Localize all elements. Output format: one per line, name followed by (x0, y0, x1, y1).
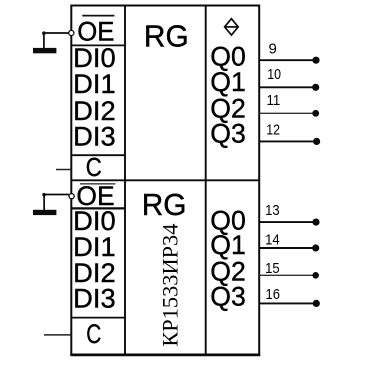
junction dot OE wire corner section 2 (42, 193, 46, 197)
svg-text:DI3: DI3 (73, 283, 116, 313)
pin 15 wire (259, 274, 312, 276)
svg-text:10: 10 (267, 66, 281, 83)
svg-text:Q3: Q3 (210, 119, 246, 149)
pin 14 wire (259, 247, 312, 249)
register U1 body outline (71, 6, 259, 355)
pin 13 wire (259, 221, 313, 223)
pin 9 node dot (312, 57, 319, 64)
pin 10 node dot (312, 84, 319, 91)
section divider between register 1 and register 2 (71, 179, 259, 181)
column divider left (x=125) (124, 6, 126, 355)
svg-text:RG: RG (142, 187, 187, 222)
wire C section 2 (44, 334, 71, 336)
pin 12 wire (259, 140, 313, 142)
svg-text:9: 9 (269, 40, 277, 57)
OE overline section 2 (80, 183, 116, 185)
cell line above C section 1 (71, 154, 125, 156)
svg-text:12: 12 (266, 122, 280, 139)
svg-text:C: C (86, 154, 102, 182)
pin 9 wire (259, 59, 313, 61)
pin 11 wire (259, 112, 312, 114)
three-state output symbol (diamond) section 1 (225, 19, 239, 35)
pin 16 node dot (313, 300, 320, 307)
svg-text:16: 16 (266, 286, 281, 303)
svg-text:15: 15 (265, 260, 280, 277)
svg-text:DI1: DI1 (73, 69, 116, 99)
svg-text:C: C (86, 319, 101, 349)
svg-text:11: 11 (267, 92, 281, 109)
ground (logic low) bar section 2 (33, 210, 56, 215)
pin 15 node dot (312, 272, 319, 279)
svg-text:14: 14 (265, 232, 280, 249)
inversion bubble OE section 2 (69, 194, 74, 199)
svg-text:Q1: Q1 (210, 230, 246, 260)
inversion bubble OE section 1 (69, 30, 74, 35)
wire OE section 1 (44, 33, 69, 48)
svg-text:13: 13 (265, 202, 280, 219)
wire OE section 2 (44, 195, 69, 210)
wire C section 1 (56, 169, 71, 171)
svg-text:RG: RG (144, 19, 189, 54)
OE overline section 1 (82, 15, 114, 17)
junction dot OE wire corner section 1 (42, 31, 46, 35)
svg-text:Q3: Q3 (210, 282, 246, 312)
svg-text:КР1533ИР34: КР1533ИР34 (158, 224, 183, 347)
svg-text:DI3: DI3 (73, 122, 116, 152)
cell line below OE section 2 (71, 207, 125, 209)
cell line below OE section 1 (71, 44, 125, 46)
pin 13 node dot (312, 219, 319, 226)
register U1 bottom edge thick (70, 354, 260, 357)
pin 12 node dot (313, 138, 320, 145)
pin 10 wire (259, 86, 312, 88)
ground (logic low) bar section 1 (33, 48, 56, 53)
pin 14 node dot (312, 244, 319, 251)
column divider right (x=205.7) (205, 6, 207, 355)
pin 11 node dot (312, 110, 319, 117)
pin 16 wire (259, 302, 313, 304)
cell line above C section 2 (71, 317, 125, 319)
